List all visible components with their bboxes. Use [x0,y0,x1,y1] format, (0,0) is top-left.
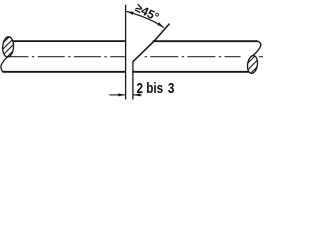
node arc arrowhead left [127,11,134,15]
wire bevel edge of right piece [133,24,170,62]
wire left break S-curve [1,57,7,72]
node right broken end ellipse [241,46,265,84]
node dimension arrowhead left [118,93,125,96]
svg-text:2 bis 3: 2 bis 3 [137,80,175,97]
wire angle dimension arc [127,11,164,27]
wire right break S-curve [252,41,260,56]
node dimension arrowhead right [133,93,140,96]
node right piece root face with extension line [132,62,134,100]
wire left bar top edge [13,40,126,42]
wire centerline left segment [7,56,126,58]
wire right bar bottom edge [132,71,248,73]
wire centerline right segment [145,56,241,58]
node arc arrowhead right [157,22,164,27]
node left broken end ellipse [0,32,18,68]
wire centerline right end dash [259,56,263,58]
wire right bar top edge [153,40,258,42]
wire dimension line left tail with arrow [110,94,125,96]
wire left bar bottom edge [3,71,126,73]
node left piece square edge with extension lines [125,5,127,100]
wire dimension line right tail with arrow [133,94,141,96]
